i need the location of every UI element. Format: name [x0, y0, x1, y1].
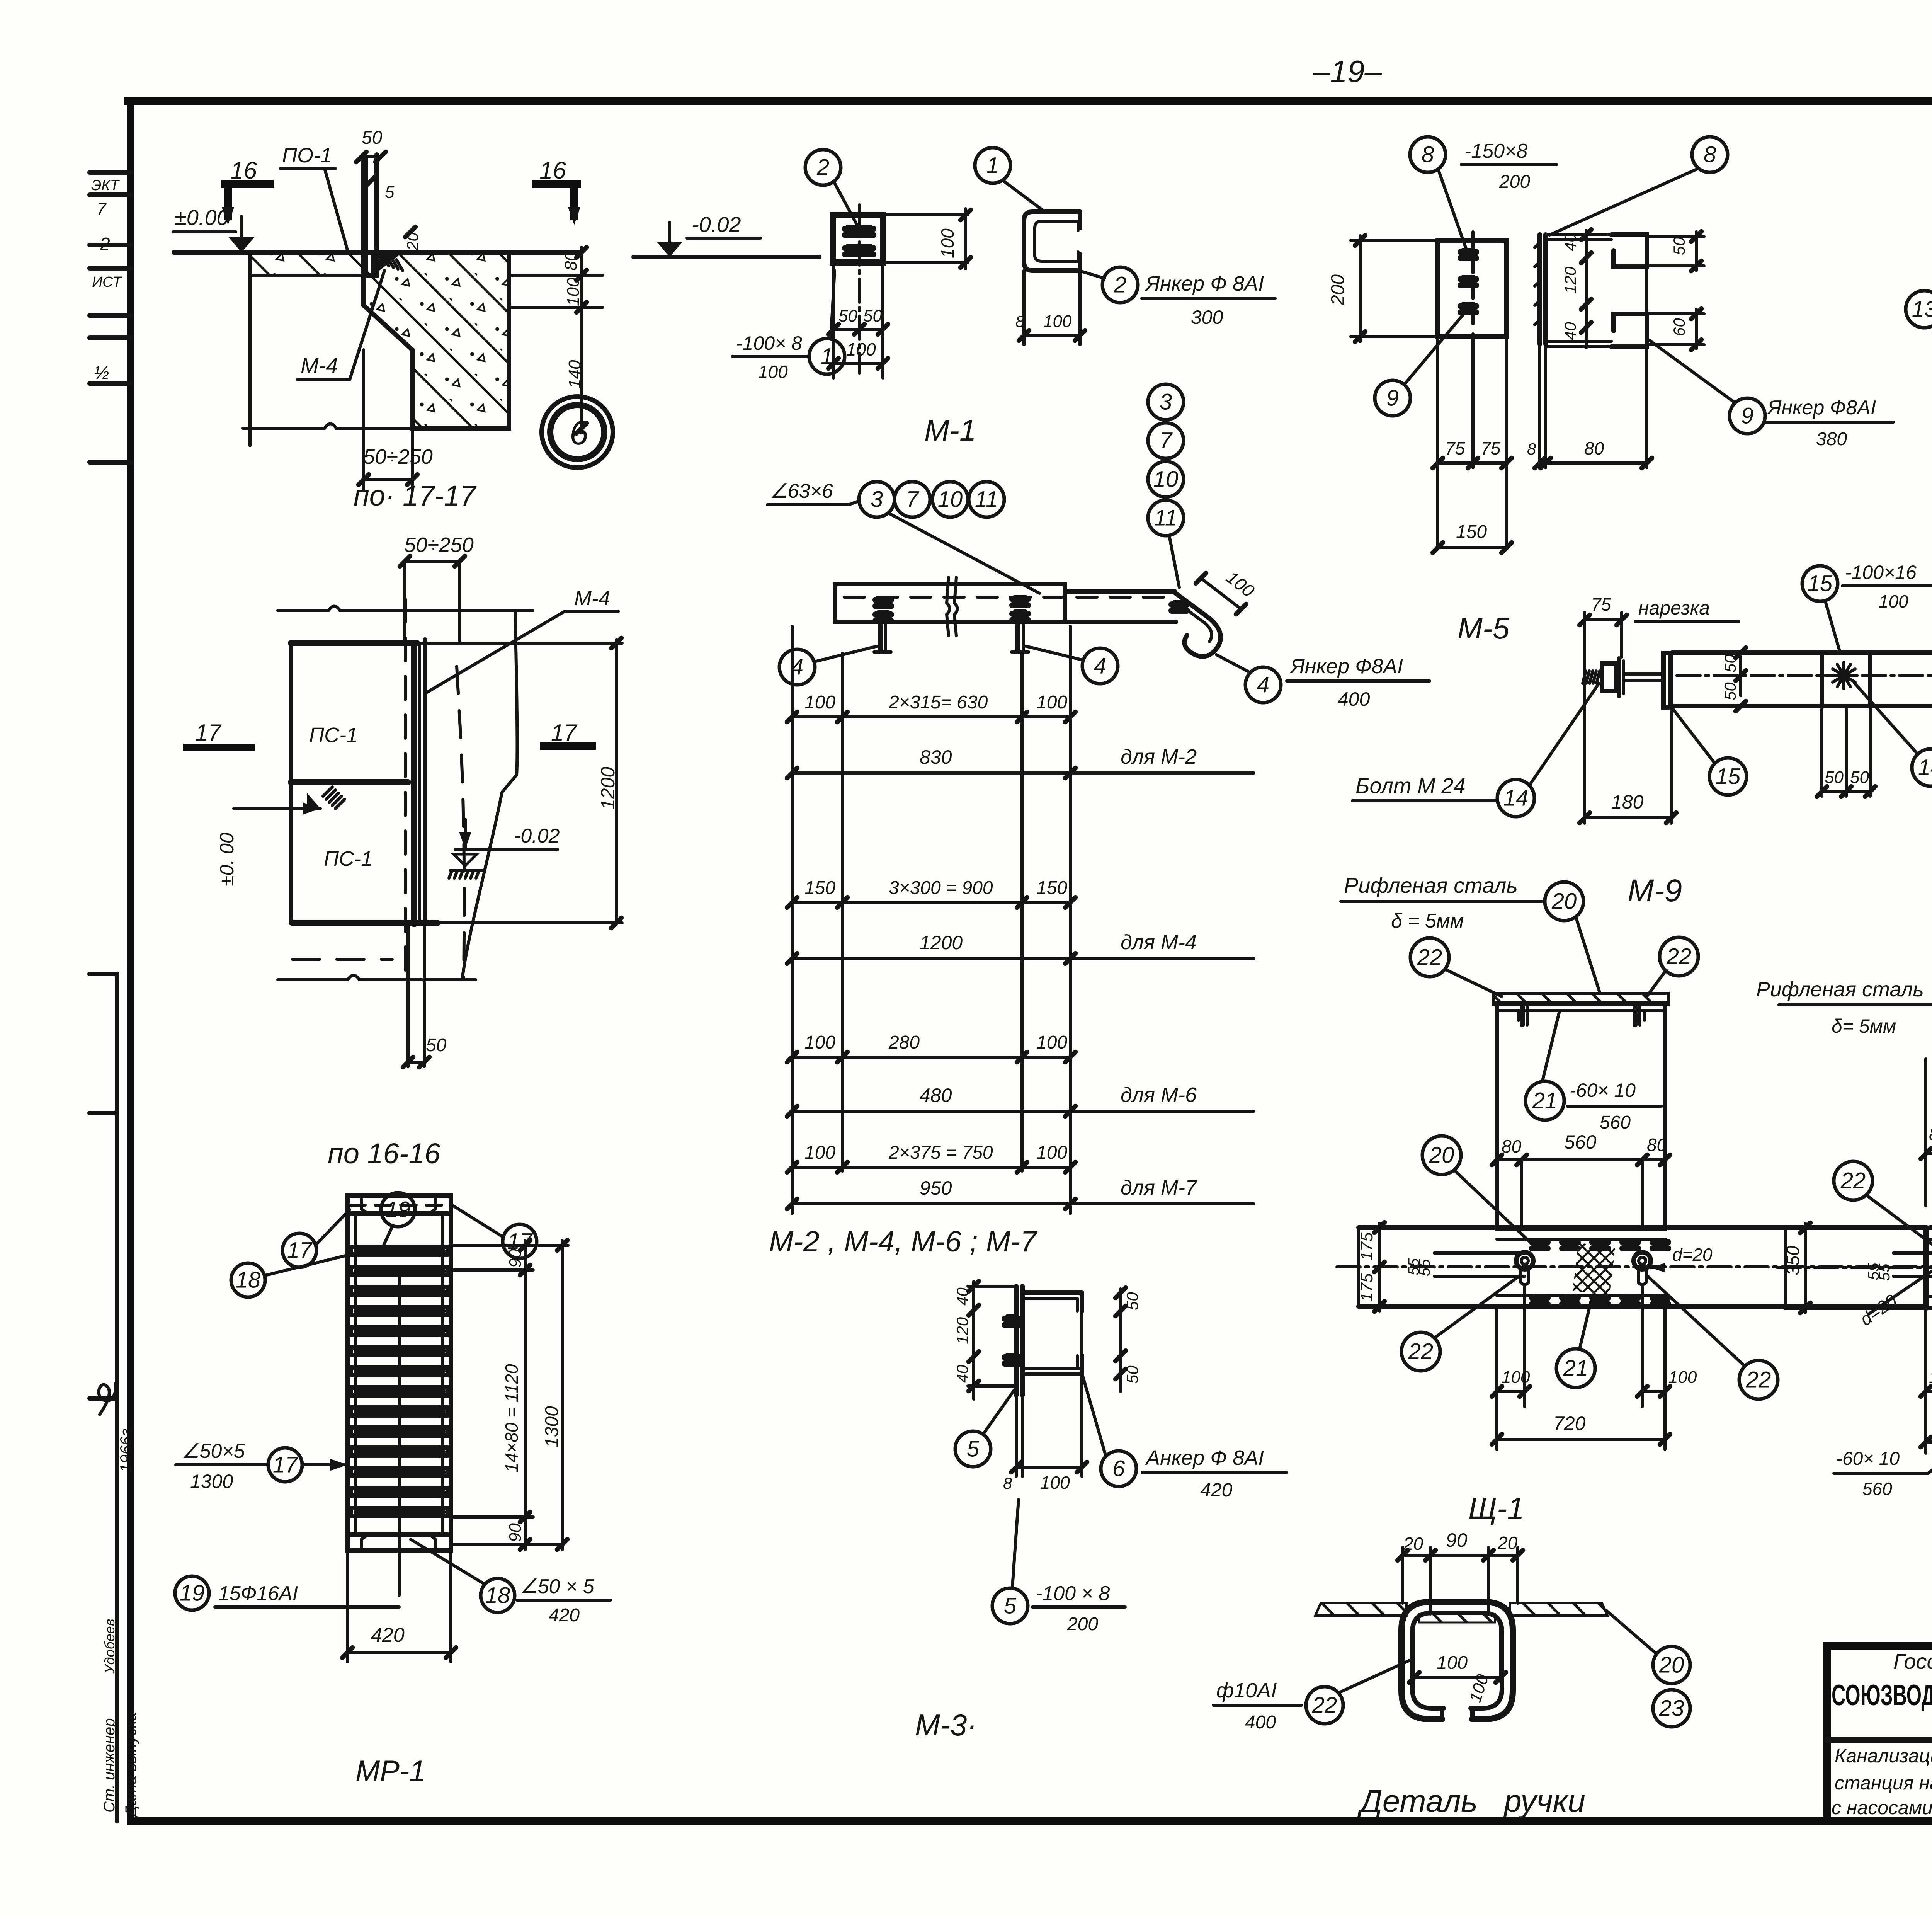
- svg-text:-0.02: -0.02: [514, 825, 560, 847]
- svg-text:80: 80: [561, 252, 580, 271]
- svg-text:8: 8: [1527, 440, 1536, 458]
- dims 50 50 100 below plate: [832, 262, 835, 378]
- svg-text:19: 19: [386, 1197, 411, 1222]
- svg-text:2: 2: [816, 155, 829, 180]
- circled 2 top: [805, 150, 841, 185]
- crosshatch patch Shch-1: [1573, 1243, 1615, 1296]
- svg-text:-0.02: -0.02: [692, 212, 741, 237]
- dims 8 100 below channel: [1022, 271, 1026, 345]
- svg-text:830: 830: [920, 746, 952, 768]
- svg-text:100: 100: [846, 339, 876, 359]
- svg-text:50: 50: [362, 128, 383, 148]
- right dim chain 80 100 140: [580, 247, 583, 433]
- svg-text:∠50 × 5: ∠50 × 5: [520, 1575, 595, 1598]
- svg-text:15Ф16АІ: 15Ф16АІ: [218, 1582, 298, 1605]
- embedded channel M-4 vertical double: [411, 643, 417, 924]
- svg-text:15: 15: [1808, 571, 1833, 596]
- svg-text:20: 20: [1551, 889, 1577, 914]
- svg-text:80: 80: [1929, 1124, 1932, 1144]
- svg-text:21: 21: [1563, 1356, 1588, 1381]
- svg-text:2: 2: [1114, 272, 1126, 298]
- svg-text:17: 17: [287, 1238, 313, 1263]
- svg-text:14: 14: [1503, 786, 1529, 811]
- svg-text:100: 100: [1036, 1142, 1067, 1163]
- svg-text:-60× 10: -60× 10: [1836, 1449, 1900, 1469]
- svg-text:М-1: М-1: [924, 413, 976, 447]
- left margin stamp ticks: [90, 170, 131, 175]
- svg-text:Янкер Ф8АІ: Янкер Ф8АІ: [1289, 655, 1403, 678]
- svg-text:560: 560: [1862, 1479, 1892, 1499]
- circled 8 right: [1692, 137, 1728, 172]
- svg-text:4: 4: [1257, 672, 1269, 698]
- square plate on beam: [1820, 654, 1824, 705]
- dim 420 bottom: [346, 1550, 349, 1662]
- svg-text:50: 50: [863, 306, 882, 325]
- svg-text:9: 9: [1386, 386, 1399, 411]
- dims 175 175 left: [1378, 1223, 1381, 1311]
- dims 100 100 below Shch-2: [1924, 1308, 1927, 1411]
- svg-text:280: 280: [888, 1032, 920, 1053]
- svg-text:175: 175: [1357, 1273, 1376, 1302]
- svg-text:11: 11: [975, 487, 998, 512]
- dims 40 120 40 right of web: [1585, 230, 1588, 348]
- svg-text:Янкер Ф8АІ: Янкер Ф8АІ: [1767, 397, 1876, 419]
- svg-text:ЭКТ: ЭКТ: [91, 177, 120, 194]
- svg-text:-60× 10: -60× 10: [1570, 1079, 1636, 1101]
- svg-text:720: 720: [1553, 1413, 1586, 1434]
- dims 100 100 below beam: [1495, 1306, 1498, 1407]
- panel Shch-1: [1497, 1003, 1665, 1228]
- wall top broken line: [278, 606, 533, 611]
- svg-text:40: 40: [1561, 233, 1579, 251]
- bar center dashed: [844, 596, 1171, 599]
- concrete block hatched: [364, 252, 509, 428]
- svg-text:175: 175: [1357, 1232, 1376, 1261]
- svg-text:380: 380: [1816, 429, 1847, 449]
- svg-text:100: 100: [1043, 312, 1072, 331]
- circled 21 bottom: [1556, 1349, 1595, 1388]
- svg-text:560: 560: [1600, 1112, 1631, 1133]
- svg-text:для М-2: для М-2: [1121, 745, 1197, 768]
- circled 14 right: [1912, 749, 1932, 786]
- svg-text:40: 40: [1561, 322, 1579, 340]
- svg-text:23: 23: [1659, 1696, 1684, 1721]
- floor plate hatched right: [1510, 1603, 1607, 1616]
- plate M-1 center dashline: [858, 205, 861, 373]
- dim 200 left of M-5: [1351, 239, 1438, 242]
- svg-text:Канализационная насосная: Канализационная насосная: [1835, 1745, 1932, 1767]
- svg-text:21: 21: [1532, 1088, 1558, 1113]
- svg-text:8: 8: [1704, 142, 1716, 167]
- svg-text:22: 22: [1840, 1168, 1866, 1193]
- svg-text:420: 420: [1200, 1479, 1233, 1501]
- circled 4 right: [1082, 648, 1118, 684]
- circled 18 label angle 50x5 420: [481, 1578, 515, 1612]
- title block left cell divider: [1827, 1737, 1932, 1743]
- svg-text:6: 6: [1112, 1456, 1125, 1481]
- svg-text:50: 50: [1670, 237, 1688, 255]
- svg-text:1: 1: [821, 344, 833, 369]
- svg-text:МР-1: МР-1: [355, 1755, 426, 1788]
- plate M-5: [1438, 240, 1507, 337]
- svg-text:½: ½: [94, 363, 109, 383]
- circled 18 upper-left: [231, 1263, 265, 1297]
- dim 100 inside handle: [1414, 1676, 1501, 1679]
- svg-text:СОЮЗВОДОКАНАЛПРОЕКТ: СОЮЗВОДОКАНАЛПРОЕКТ: [1832, 1679, 1932, 1712]
- channel section M-1: [1024, 212, 1080, 271]
- circled 22 right lower: [1739, 1360, 1778, 1399]
- svg-text:16: 16: [539, 157, 566, 184]
- dims 8 80 below web: [1538, 344, 1541, 468]
- svg-text:14: 14: [1918, 755, 1932, 780]
- svg-text:50: 50: [1123, 1292, 1141, 1310]
- svg-text:180: 180: [1611, 791, 1644, 813]
- svg-text:ПС-1: ПС-1: [309, 724, 358, 747]
- svg-text:16: 16: [230, 157, 257, 184]
- svg-text:по· 17-17: по· 17-17: [354, 480, 477, 512]
- circled 17 top-right: [503, 1224, 537, 1258]
- hook bottom M-5: [1611, 314, 1647, 347]
- ground line left: [174, 250, 582, 255]
- plate M-3 vertical: [1014, 1286, 1019, 1395]
- svg-text:22: 22: [1408, 1339, 1434, 1364]
- anchor right of bar: [1015, 622, 1020, 652]
- svg-text:2×315= 630: 2×315= 630: [888, 692, 988, 713]
- dim 75 narezka: [1585, 618, 1622, 621]
- dashed line left of channel: [404, 599, 407, 980]
- dims 75 75 below plate: [1436, 337, 1439, 549]
- svg-text:2×375 = 750: 2×375 = 750: [888, 1142, 993, 1163]
- circle column 3 7 10 11 right: [1148, 384, 1184, 420]
- node circle 6: [542, 397, 613, 468]
- svg-text:ф10АІ: ф10АІ: [1216, 1679, 1277, 1702]
- svg-text:Рифленая сталь: Рифленая сталь: [1756, 978, 1924, 1001]
- channel M-3 top flange: [1022, 1290, 1082, 1295]
- svg-text:40: 40: [953, 1365, 971, 1383]
- circled 19 top: [381, 1193, 415, 1227]
- anchor left of bar: [878, 622, 883, 652]
- svg-text:1300: 1300: [542, 1406, 562, 1447]
- svg-text:9: 9: [1741, 403, 1753, 429]
- svg-text:100: 100: [804, 1142, 835, 1163]
- svg-text:М-4: М-4: [301, 353, 338, 378]
- svg-text:11: 11: [1154, 506, 1177, 531]
- svg-text:20: 20: [1429, 1143, 1454, 1168]
- svg-text:Болт М 24: Болт М 24: [1355, 773, 1466, 798]
- svg-text:50: 50: [1123, 1365, 1141, 1384]
- cap bolts: [1520, 1005, 1525, 1025]
- circled 15: [1709, 758, 1747, 795]
- svg-text:1200: 1200: [920, 932, 963, 953]
- svg-text:19: 19: [180, 1581, 205, 1606]
- dim 180: [1670, 707, 1673, 823]
- svg-text:560: 560: [1564, 1131, 1597, 1153]
- svg-text:480: 480: [920, 1084, 952, 1106]
- svg-text:80: 80: [1584, 438, 1604, 458]
- circled 9 left: [1375, 380, 1410, 416]
- svg-text:с насосами 2½НФили 4НФ: с насосами 2½НФили 4НФ: [1832, 1797, 1932, 1818]
- svg-text:8: 8: [1422, 142, 1434, 167]
- block bottom line: [243, 424, 493, 429]
- svg-text:100: 100: [1036, 1032, 1067, 1053]
- circled 5: [955, 1431, 991, 1467]
- svg-text:-100×16: -100×16: [1845, 562, 1917, 583]
- svg-text:17: 17: [551, 720, 578, 746]
- svg-text:80: 80: [1647, 1135, 1667, 1155]
- svg-text:300: 300: [1191, 306, 1223, 328]
- plate M-3 weld blobs: [1005, 1316, 1020, 1322]
- end plate M-9: [1663, 653, 1670, 707]
- dims 40 120 40 left of M-3: [972, 1282, 975, 1399]
- svg-text:5: 5: [1004, 1594, 1017, 1619]
- weld rows Shch-1: [1532, 1239, 1548, 1245]
- svg-text:±0. 00: ±0. 00: [216, 833, 238, 886]
- drawing frame left border: [127, 101, 134, 1821]
- svg-text:950: 950: [920, 1177, 952, 1199]
- svg-text:100: 100: [1502, 1368, 1530, 1387]
- bar M-2 right part: [1065, 589, 1175, 594]
- svg-text:ПО-1: ПО-1: [282, 144, 332, 167]
- eye bolt left: [1516, 1252, 1533, 1269]
- handle ring outer: [1401, 1602, 1513, 1719]
- dims 8 100 below M-3: [1015, 1395, 1018, 1476]
- svg-text:7: 7: [97, 200, 107, 219]
- solid excavation curve: [462, 611, 517, 980]
- svg-text:∠63×6: ∠63×6: [770, 480, 833, 502]
- svg-text:М-3·: М-3·: [915, 1708, 977, 1742]
- svg-text:Ст. инженер: Ст. инженер: [101, 1718, 118, 1813]
- svg-text:22: 22: [1746, 1367, 1771, 1393]
- plate M-5 weld clusters and dash: [1471, 232, 1475, 344]
- svg-text:100: 100: [1036, 692, 1067, 713]
- svg-text:90: 90: [506, 1249, 525, 1268]
- dim 90 and 14x80 right of ladder: [452, 1244, 533, 1247]
- svg-text:1200: 1200: [597, 767, 619, 810]
- dim 1300 right: [561, 1241, 564, 1550]
- svg-text:3: 3: [871, 487, 883, 512]
- svg-text:–19–: –19–: [1313, 54, 1382, 89]
- bar M-2 left part: [835, 584, 1065, 622]
- svg-text:-100 × 8: -100 × 8: [1036, 1582, 1110, 1605]
- dim 150 below: [1438, 546, 1507, 549]
- circled 19 label 15f16AI: [175, 1576, 209, 1610]
- svg-text:Рифленая сталь: Рифленая сталь: [1344, 873, 1518, 897]
- circled 22 above left: [1410, 938, 1449, 977]
- circled 8 with label -150x8 200: [1410, 137, 1446, 172]
- circled 5 plate label: [992, 1588, 1028, 1624]
- svg-text:50: 50: [838, 306, 857, 325]
- svg-text:100: 100: [1223, 567, 1259, 601]
- weld corner filled: [379, 252, 403, 271]
- svg-text:10: 10: [1153, 467, 1179, 492]
- bottom broken line: [278, 976, 476, 980]
- plate M-1: [833, 215, 883, 262]
- circled 6 anchor label: [1101, 1451, 1136, 1486]
- ladder rungs: [350, 1247, 448, 1255]
- ladder MR-1 top flange: [347, 1196, 451, 1214]
- svg-text:400: 400: [1338, 688, 1370, 710]
- svg-text:для М-4: для М-4: [1121, 931, 1197, 954]
- svg-text:100: 100: [1668, 1368, 1697, 1387]
- bar break mark: [947, 577, 950, 636]
- web M-5: [1537, 235, 1542, 344]
- svg-text:М-9: М-9: [1628, 873, 1682, 908]
- handle lips: [1440, 1708, 1444, 1719]
- dim 1200 right: [615, 640, 618, 924]
- svg-text:22: 22: [1666, 944, 1692, 969]
- svg-text:для М-6: для М-6: [1121, 1083, 1197, 1107]
- svg-text:50÷250: 50÷250: [404, 533, 474, 557]
- circled 22 above right: [1660, 937, 1698, 976]
- svg-text:50: 50: [1721, 682, 1739, 700]
- left extension line: [248, 252, 252, 446]
- svg-text:ИСТ: ИСТ: [92, 274, 122, 290]
- circled 20 23 right: [1653, 1646, 1690, 1684]
- svg-text:7: 7: [906, 487, 920, 512]
- svg-text:150: 150: [804, 878, 835, 898]
- dim 50 bottom: [406, 924, 410, 1067]
- ladder rails: [345, 1214, 350, 1535]
- svg-text:для М-7: для М-7: [1121, 1176, 1197, 1199]
- beam M-9: [1672, 650, 1932, 655]
- svg-text:420: 420: [371, 1624, 405, 1646]
- svg-text:140: 140: [565, 360, 584, 388]
- svg-text:δ = 5мм: δ = 5мм: [1391, 910, 1464, 932]
- bar weld clusters: [876, 597, 891, 603]
- channel M-3 bottom flange: [1022, 1367, 1082, 1370]
- svg-text:100: 100: [758, 362, 788, 382]
- svg-text:420: 420: [549, 1605, 580, 1626]
- svg-text:станция на 2 агрегата: станция на 2 агрегата: [1835, 1772, 1932, 1794]
- svg-text:100: 100: [1437, 1653, 1468, 1673]
- svg-text:150: 150: [1036, 878, 1067, 898]
- circled 15 label -100x16: [1802, 566, 1838, 601]
- svg-text:по 16-16: по 16-16: [328, 1137, 441, 1170]
- svg-text:М-4: М-4: [574, 587, 610, 610]
- dim 720: [1495, 1407, 1498, 1449]
- wall outline ps-1: [291, 640, 417, 646]
- svg-text:3: 3: [1160, 390, 1172, 415]
- svg-text:50: 50: [1850, 768, 1869, 787]
- dim 50-250 bottom: [362, 350, 365, 490]
- svg-text:75: 75: [1591, 594, 1611, 615]
- svg-text:-100× 8: -100× 8: [736, 332, 802, 354]
- level mark pm000 rotated: [234, 807, 320, 810]
- svg-text:200: 200: [1067, 1614, 1098, 1634]
- circled 9 anchor label: [1730, 398, 1765, 434]
- circled 22 Shch-2 left: [1834, 1161, 1872, 1200]
- svg-text:13: 13: [1912, 297, 1932, 322]
- svg-text:6: 6: [570, 414, 588, 452]
- dim 720 Shch-2: [1924, 1411, 1927, 1453]
- svg-text:Госстрой СССР: Госстрой СССР: [1893, 1649, 1932, 1674]
- bolt M24: [1583, 671, 1586, 683]
- svg-text:18: 18: [485, 1583, 510, 1608]
- title block outer frame: [1827, 1646, 1932, 1821]
- dashed floor line below: [293, 958, 392, 961]
- svg-text:60: 60: [1670, 318, 1688, 336]
- svg-text:1966г: 1966г: [117, 1428, 135, 1473]
- left stamp column lines: [115, 974, 119, 1821]
- circled 21 plate label: [1526, 1081, 1564, 1120]
- svg-text:400: 400: [1245, 1712, 1276, 1733]
- ladder bottom flange: [347, 1535, 451, 1550]
- svg-text:350: 350: [1783, 1246, 1803, 1275]
- svg-text:Дата выпуска: Дата выпуска: [122, 1712, 139, 1818]
- svg-text:100: 100: [937, 228, 957, 258]
- dims 50 50 mid beam: [1739, 657, 1742, 696]
- dimension ladder M-2..M-7: [791, 626, 794, 1214]
- svg-text:18: 18: [236, 1268, 261, 1293]
- svg-text:2: 2: [99, 234, 110, 255]
- svg-text:нарезка: нарезка: [1638, 597, 1710, 619]
- circled 17 top-left: [282, 1233, 316, 1267]
- svg-text:200: 200: [1499, 172, 1530, 192]
- svg-text:120: 120: [953, 1317, 971, 1344]
- beam Shch-1: [1359, 1225, 1926, 1230]
- svg-text:1300: 1300: [190, 1471, 233, 1492]
- dim 350 left: [1804, 1223, 1807, 1313]
- svg-text:4: 4: [1094, 654, 1106, 679]
- svg-text:55: 55: [1416, 1259, 1433, 1276]
- svg-text:90: 90: [506, 1523, 525, 1542]
- svg-text:40: 40: [953, 1287, 971, 1306]
- plate M-1 weld clusters: [845, 226, 861, 232]
- svg-text:Деталь ручки: Деталь ручки: [1357, 1784, 1585, 1819]
- panel Shch-2 trapezoid: [1923, 1228, 1929, 1308]
- svg-text:22: 22: [1312, 1693, 1337, 1718]
- svg-text:8: 8: [1015, 312, 1025, 330]
- svg-text:100: 100: [1879, 591, 1908, 611]
- circled 20 beam: [1422, 1136, 1461, 1175]
- svg-text:100: 100: [564, 278, 583, 306]
- svg-text:∠50×5: ∠50×5: [182, 1440, 245, 1462]
- svg-text:75: 75: [1445, 438, 1465, 458]
- svg-text:50: 50: [1825, 768, 1844, 787]
- svg-text:50: 50: [426, 1035, 447, 1056]
- block dim extension lines right: [509, 274, 603, 277]
- dims 50 50 right of M-3: [1119, 1289, 1122, 1391]
- dims 50 60 far right: [1695, 232, 1698, 271]
- svg-text:1: 1: [986, 153, 999, 178]
- circled 4 left: [779, 649, 815, 685]
- svg-text:90: 90: [1446, 1529, 1468, 1551]
- dashed excavation boundary: [457, 666, 464, 980]
- svg-text:Удобеев: Удобеев: [102, 1619, 117, 1674]
- svg-text:100: 100: [1929, 1368, 1932, 1387]
- svg-text:10: 10: [938, 487, 963, 512]
- circled 1: [975, 148, 1010, 183]
- svg-text:50÷250: 50÷250: [363, 445, 433, 468]
- drawing frame top border: [128, 97, 1932, 105]
- dim 100 plate height: [883, 213, 968, 216]
- svg-text:Щ-1: Щ-1: [1468, 1491, 1524, 1525]
- beam Shch-2: [1785, 1226, 1932, 1230]
- eye bolt right: [1634, 1252, 1651, 1269]
- plate through handle hatched: [1419, 1614, 1495, 1622]
- svg-text:17: 17: [195, 720, 222, 746]
- svg-text:15: 15: [1716, 764, 1741, 789]
- svg-text:17: 17: [273, 1452, 299, 1478]
- svg-text:d=20: d=20: [1672, 1245, 1713, 1265]
- ladder center bar: [398, 1268, 401, 1595]
- hook top M-5: [1611, 235, 1647, 267]
- svg-text:М-5: М-5: [1458, 611, 1510, 645]
- circled 4 anchor label: [1245, 667, 1281, 703]
- flange top M-5: [1546, 238, 1611, 241]
- panel cap hatched: [1494, 993, 1668, 1005]
- field weld burst: [1840, 672, 1848, 679]
